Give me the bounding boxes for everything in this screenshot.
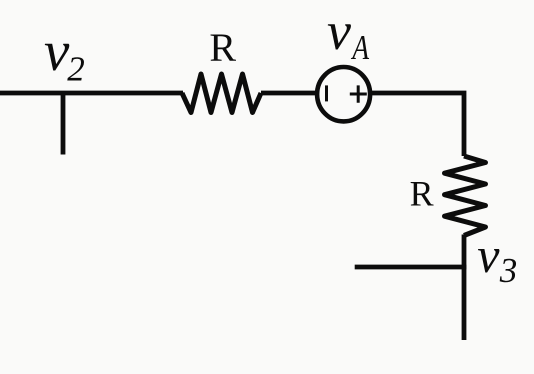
plus terminal inside source bbox=[350, 85, 367, 102]
wire: left horizontal from edge to resistor R (top) bbox=[0, 91, 183, 96]
svg-text:A: A bbox=[351, 28, 370, 67]
svg-text:R: R bbox=[209, 25, 236, 70]
voltage source vA (circle) bbox=[317, 67, 370, 121]
resistor R (right, vertical zigzag) bbox=[445, 156, 486, 236]
wire: source to top-right corner, then down to resistor bbox=[371, 93, 464, 156]
svg-text:R: R bbox=[410, 173, 434, 213]
svg-text:v: v bbox=[327, 1, 351, 61]
resistor R (top, horizontal zigzag) bbox=[182, 74, 261, 113]
svg-text:v: v bbox=[477, 227, 500, 283]
minus terminal (vertical bar inside source) bbox=[325, 85, 328, 101]
wire: below right resistor down past node bbox=[462, 235, 467, 341]
svg-text:3: 3 bbox=[499, 251, 518, 290]
wire: bottom horizontal into node v3 bbox=[355, 265, 467, 270]
wire: resistor to source vA bbox=[261, 91, 317, 96]
node v2 tick (vertical stub below wire) bbox=[61, 91, 66, 155]
svg-text:v: v bbox=[44, 20, 70, 83]
svg-text:2: 2 bbox=[67, 50, 85, 89]
